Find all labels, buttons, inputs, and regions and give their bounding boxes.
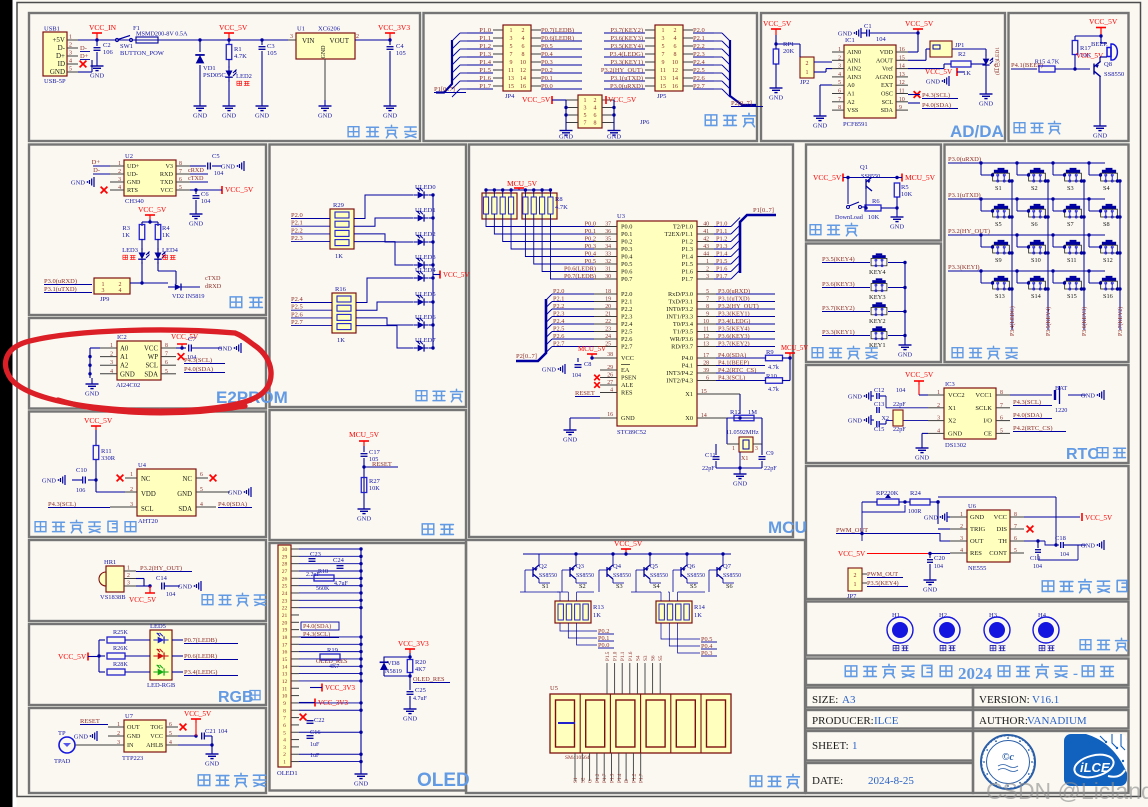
svg-text:GND: GND [979, 101, 993, 108]
svg-text:2024-8-25: 2024-8-25 [868, 775, 914, 787]
svg-text:4: 4 [594, 106, 597, 112]
svg-text:2: 2 [522, 28, 525, 34]
svg-text:+5V: +5V [52, 36, 65, 44]
svg-text:12: 12 [672, 68, 678, 74]
svg-text:VD2 IN5819: VD2 IN5819 [172, 293, 204, 300]
svg-text:1220: 1220 [1055, 407, 1067, 414]
svg-text:NC: NC [183, 476, 193, 483]
svg-text:R24: R24 [910, 490, 922, 497]
svg-text:D+: D+ [92, 159, 101, 166]
svg-text:AIN1: AIN1 [847, 57, 861, 64]
svg-text:X1: X1 [948, 405, 956, 412]
svg-text:VS1838B: VS1838B [100, 594, 126, 601]
svg-text:14: 14 [520, 76, 526, 82]
svg-text:MCU_5V: MCU_5V [349, 430, 380, 439]
svg-text:6: 6 [200, 472, 203, 478]
svg-text:16: 16 [672, 84, 678, 90]
svg-text:A1: A1 [120, 354, 128, 361]
svg-text:GND: GND [559, 134, 573, 141]
svg-text:UD-: UD- [127, 171, 138, 178]
svg-text:P1.2: P1.2 [631, 773, 637, 783]
svg-text:U2: U2 [125, 153, 133, 160]
svg-text:GND: GND [923, 587, 937, 594]
svg-text:P2.7: P2.7 [621, 344, 632, 351]
svg-text:C24: C24 [333, 557, 345, 564]
svg-text:GND: GND [924, 515, 938, 522]
svg-text:3: 3 [290, 34, 293, 40]
svg-text:1: 1 [283, 760, 286, 766]
svg-text:P2[0..7]: P2[0..7] [516, 353, 537, 360]
svg-text:100R: 100R [908, 508, 922, 515]
svg-text:MCU_5V: MCU_5V [507, 179, 538, 188]
svg-text:P3.7(KEY2): P3.7(KEY2) [1117, 307, 1124, 336]
svg-text:Q6: Q6 [687, 563, 696, 570]
svg-text:P0.6: P0.6 [621, 269, 632, 276]
svg-text:VCC_5V: VCC_5V [905, 19, 934, 28]
svg-text:UD+: UD+ [127, 163, 140, 170]
svg-text:S1: S1 [573, 777, 579, 783]
svg-text:104: 104 [572, 373, 581, 379]
svg-text:GND: GND [178, 584, 192, 591]
svg-text:10: 10 [672, 60, 678, 66]
svg-text:CE: CE [984, 430, 992, 437]
svg-text:VCC_5V: VCC_5V [1089, 17, 1118, 26]
svg-text:IN: IN [127, 742, 134, 749]
svg-text:(红色)LED1: (红色)LED1 [993, 47, 1001, 75]
svg-text:C5: C5 [212, 153, 220, 160]
svg-text:2: 2 [806, 61, 809, 67]
svg-text:V3: V3 [165, 163, 173, 170]
svg-text:104: 104 [1060, 552, 1069, 558]
svg-text:4: 4 [69, 59, 72, 65]
svg-text:R13: R13 [593, 604, 604, 611]
svg-text:S5: S5 [658, 655, 664, 661]
svg-text:U6: U6 [968, 503, 977, 510]
svg-text:VCC_3V3: VCC_3V3 [378, 23, 410, 32]
svg-text:22pF: 22pF [893, 401, 906, 408]
svg-text:1K: 1K [162, 232, 170, 239]
svg-text:R26K: R26K [113, 645, 128, 652]
svg-text:4: 4 [283, 738, 286, 744]
svg-text:C15: C15 [874, 426, 884, 433]
svg-text:P3.3(KEY1): P3.3(KEY1) [822, 329, 855, 336]
svg-text:LED5: LED5 [150, 623, 166, 630]
svg-text:LED2: LED2 [236, 73, 252, 80]
svg-text:C3: C3 [267, 43, 275, 50]
svg-text:105: 105 [267, 50, 277, 57]
svg-text:STC89C52: STC89C52 [617, 429, 646, 436]
svg-text:29: 29 [282, 554, 288, 560]
svg-text:C14: C14 [156, 575, 168, 582]
svg-text:P1.7: P1.7 [602, 773, 608, 783]
svg-text:P4.3(SCL): P4.3(SCL) [48, 501, 76, 508]
svg-text:20: 20 [282, 620, 288, 626]
svg-text:P3.4(LEDG): P3.4(LEDG) [184, 669, 217, 676]
svg-text:C25: C25 [415, 687, 426, 694]
svg-text:S3: S3 [1067, 185, 1074, 192]
svg-text:R1: R1 [234, 46, 242, 53]
svg-text:XC6206: XC6206 [318, 26, 341, 33]
svg-text:1: 1 [732, 446, 735, 452]
svg-text:3: 3 [662, 36, 665, 42]
svg-text:C8: C8 [584, 361, 591, 368]
svg-text:USB1: USB1 [44, 26, 60, 33]
svg-text:VCC_5V: VCC_5V [443, 271, 469, 279]
svg-text:5: 5 [69, 67, 72, 73]
svg-text:SS8550: SS8550 [1104, 71, 1124, 78]
svg-text:GND: GND [621, 415, 635, 422]
svg-text:2024: 2024 [958, 664, 993, 683]
svg-text:OUT: OUT [127, 724, 140, 731]
svg-text:4: 4 [674, 36, 677, 42]
svg-text:3: 3 [755, 446, 758, 452]
svg-text:VCC1: VCC1 [975, 392, 992, 399]
svg-text:LED3: LED3 [122, 247, 138, 254]
svg-text:P1.1: P1.1 [620, 651, 626, 661]
svg-text:15: 15 [660, 84, 666, 90]
svg-text:1: 1 [510, 28, 513, 34]
svg-text:RESET: RESET [80, 718, 100, 725]
svg-text:R19: R19 [327, 647, 338, 654]
svg-text:R5: R5 [901, 184, 909, 191]
svg-text:X0: X0 [685, 415, 693, 422]
svg-text:6: 6 [594, 113, 597, 119]
svg-text:C22: C22 [314, 717, 325, 724]
svg-text:P3.5(KEY4): P3.5(KEY4) [867, 580, 899, 587]
svg-text:P2.6: P2.6 [291, 311, 303, 318]
svg-text:VCC_5V: VCC_5V [225, 185, 254, 194]
svg-text:SCL: SCL [141, 506, 153, 513]
svg-text:VCC_5V: VCC_5V [925, 68, 953, 76]
svg-text:104: 104 [201, 198, 210, 205]
svg-text:10K: 10K [369, 485, 380, 492]
svg-text:GND: GND [357, 516, 371, 523]
svg-text:P3.1(uTXD): P3.1(uTXD) [948, 192, 981, 199]
svg-text:SDA: SDA [881, 107, 894, 114]
svg-text:Q2: Q2 [539, 563, 547, 570]
svg-text:P1.3: P1.3 [610, 773, 616, 783]
svg-text:1uF: 1uF [310, 742, 320, 748]
svg-text:S9: S9 [995, 257, 1002, 264]
svg-text:VOUT: VOUT [330, 37, 350, 45]
svg-text:1: 1 [130, 472, 133, 478]
svg-text:10K: 10K [868, 214, 880, 221]
svg-text:P2.1: P2.1 [621, 299, 632, 306]
svg-text:R28K: R28K [113, 661, 128, 668]
svg-text:VCC_5V: VCC_5V [138, 205, 167, 214]
svg-text:VCC_IN: VCC_IN [89, 23, 117, 32]
svg-text:3: 3 [127, 581, 130, 587]
svg-text:12: 12 [520, 68, 526, 74]
svg-text:P1.6: P1.6 [682, 269, 693, 276]
svg-text:T2EX/P1.1: T2EX/P1.1 [664, 231, 693, 238]
svg-text:C7: C7 [188, 336, 196, 343]
svg-text:DIS: DIS [997, 526, 1008, 533]
svg-text:VCC_3V3: VCC_3V3 [325, 684, 355, 692]
svg-text:9: 9 [283, 701, 286, 707]
svg-text:S16: S16 [1103, 293, 1113, 300]
svg-text:SCL: SCL [146, 363, 158, 370]
svg-text:7: 7 [283, 716, 286, 722]
svg-text:R14: R14 [694, 604, 706, 611]
svg-text:S6: S6 [1031, 221, 1038, 228]
svg-text:SDA: SDA [178, 506, 192, 513]
svg-text:GND: GND [255, 113, 269, 120]
svg-text:IC1: IC1 [845, 37, 855, 44]
svg-text:GND: GND [120, 371, 135, 378]
svg-text:VCC: VCC [144, 346, 158, 353]
svg-text:AGND: AGND [875, 74, 893, 81]
svg-text:P1.6: P1.6 [628, 651, 634, 661]
svg-text:P1.3: P1.3 [682, 246, 693, 253]
svg-text:C10: C10 [76, 467, 87, 474]
svg-text:U4: U4 [138, 462, 147, 469]
svg-text:MCU_5V: MCU_5V [905, 173, 936, 182]
svg-text:GND: GND [1081, 393, 1095, 400]
svg-text:11: 11 [282, 686, 288, 692]
svg-text:AHT20: AHT20 [138, 518, 158, 525]
svg-text:P4.0(SDA): P4.0(SDA) [184, 366, 213, 373]
svg-text:OLED: OLED [417, 770, 470, 791]
svg-text:X2: X2 [948, 418, 956, 425]
svg-text:LED4: LED4 [162, 247, 179, 254]
svg-text:T2/P1.0: T2/P1.0 [673, 224, 693, 231]
svg-text:P3.6(KEY3): P3.6(KEY3) [1081, 307, 1088, 336]
svg-text:SDA: SDA [144, 371, 158, 378]
svg-text:GND: GND [915, 455, 929, 462]
svg-text:10K: 10K [901, 191, 913, 198]
svg-text:VCC_5V: VCC_5V [522, 95, 551, 104]
svg-text:OUT: OUT [970, 538, 983, 545]
svg-text:BAT: BAT [1055, 385, 1067, 392]
svg-text:104: 104 [218, 728, 227, 735]
svg-text:14: 14 [282, 664, 288, 670]
svg-text:S6: S6 [651, 655, 657, 661]
svg-text:CSDN @Liclandli: CSDN @Liclandli [986, 778, 1148, 804]
svg-text:C2: C2 [103, 42, 111, 49]
svg-text:P2.7: P2.7 [291, 319, 303, 326]
svg-text:13: 13 [660, 76, 666, 82]
svg-text:S15: S15 [1067, 293, 1077, 300]
svg-text:RD/P3.7: RD/P3.7 [671, 344, 693, 351]
svg-text:A2: A2 [847, 99, 855, 106]
svg-text:18: 18 [282, 635, 288, 641]
svg-text:V16.1: V16.1 [1032, 694, 1059, 706]
svg-text:AIN0: AIN0 [847, 49, 861, 56]
svg-text:BEEP.: BEEP. [1091, 41, 1108, 48]
svg-text:P1.4: P1.4 [617, 773, 623, 783]
svg-text:GND: GND [221, 164, 235, 171]
svg-text:14: 14 [672, 76, 678, 82]
svg-text:13: 13 [282, 672, 288, 678]
svg-text:TxD/P3.1: TxD/P3.1 [668, 299, 693, 306]
svg-text:INT0/P3.2: INT0/P3.2 [666, 306, 693, 313]
svg-text:VCC_5V: VCC_5V [129, 596, 157, 604]
svg-text:C1: C1 [864, 23, 872, 30]
svg-text:P3.5(KEY4): P3.5(KEY4) [1045, 307, 1052, 336]
svg-text:P2[0..7]: P2[0..7] [731, 100, 752, 107]
svg-text:P2.0: P2.0 [621, 291, 632, 298]
svg-text:A1: A1 [847, 91, 855, 98]
svg-text:P4.0(SDA): P4.0(SDA) [303, 623, 331, 630]
svg-text:R2: R2 [958, 51, 966, 58]
svg-text:P2.5: P2.5 [291, 304, 303, 311]
svg-text:DS1302: DS1302 [945, 442, 966, 449]
svg-text:S4: S4 [1103, 185, 1111, 192]
svg-text:C13: C13 [874, 401, 884, 408]
svg-text:16: 16 [520, 84, 526, 90]
svg-text:P0.7(LEDB): P0.7(LEDB) [184, 637, 217, 644]
svg-text:S5: S5 [690, 583, 697, 590]
svg-text:R10: R10 [766, 373, 777, 380]
svg-text:P4.1: P4.1 [682, 363, 693, 370]
svg-text:28: 28 [282, 562, 288, 568]
svg-text:SS8550: SS8550 [539, 573, 557, 579]
svg-text:JP1: JP1 [955, 42, 964, 49]
svg-text:P0.6(LEDR): P0.6(LEDR) [184, 653, 217, 660]
svg-text:INT3/P4.2: INT3/P4.2 [666, 370, 693, 377]
svg-text:EXT: EXT [881, 82, 893, 89]
svg-text:GND: GND [50, 68, 65, 76]
svg-text:cRXD: cRXD [188, 167, 204, 174]
svg-text:1K: 1K [963, 70, 971, 77]
svg-text:GND: GND [127, 733, 141, 740]
svg-text:104: 104 [896, 387, 905, 394]
svg-text:SIZE:: SIZE: [812, 694, 838, 706]
svg-text:GND: GND [733, 481, 747, 488]
svg-text:S12: S12 [1103, 257, 1113, 264]
svg-text:6: 6 [674, 44, 677, 50]
svg-text:8: 8 [674, 52, 677, 58]
svg-text:GND: GND [890, 224, 904, 231]
svg-text:Q4: Q4 [613, 563, 622, 570]
svg-text:30: 30 [282, 547, 288, 553]
svg-text:PRODUCER:: PRODUCER: [812, 715, 874, 727]
svg-text:Q1: Q1 [860, 164, 868, 171]
svg-text:TRIG: TRIG [970, 526, 985, 533]
svg-text:AD/DA: AD/DA [950, 122, 1004, 141]
svg-text:560K: 560K [316, 586, 330, 592]
svg-text:T0/P3.4: T0/P3.4 [673, 321, 694, 328]
svg-text:P2.4: P2.4 [621, 321, 633, 328]
svg-text:VCC_5V: VCC_5V [763, 19, 792, 28]
svg-text:NE555: NE555 [968, 565, 986, 572]
svg-text:1: 1 [854, 582, 857, 588]
svg-text:C11: C11 [705, 452, 716, 459]
svg-text:1: 1 [662, 28, 665, 34]
svg-text:C20: C20 [934, 555, 945, 562]
svg-text:S13: S13 [995, 293, 1005, 300]
svg-text:SW1: SW1 [120, 43, 133, 50]
svg-text:MCU_5V: MCU_5V [781, 345, 808, 352]
svg-text:VCC_3V3: VCC_3V3 [318, 699, 348, 707]
svg-text:R4: R4 [162, 225, 170, 232]
svg-text:R17: R17 [1080, 45, 1092, 52]
svg-text:P4.3(SCL): P4.3(SCL) [184, 357, 212, 364]
svg-text:4.7k: 4.7k [768, 386, 780, 393]
svg-text:I/O: I/O [983, 418, 992, 425]
svg-text:VCC_3V3: VCC_3V3 [398, 640, 429, 648]
svg-text:GND: GND [898, 352, 912, 359]
svg-text:15: 15 [508, 84, 514, 90]
svg-text:38: 38 [607, 352, 613, 358]
svg-text:D+: D+ [80, 53, 89, 60]
svg-text:8: 8 [522, 52, 525, 58]
svg-text:22pF: 22pF [702, 465, 715, 472]
svg-text:P4.0(SDA): P4.0(SDA) [1013, 412, 1042, 419]
svg-text:GND: GND [1093, 133, 1107, 140]
svg-text:P2.2: P2.2 [291, 227, 303, 234]
svg-text:P1[0..7]: P1[0..7] [753, 207, 774, 214]
svg-text:P3.3(KEYI): P3.3(KEYI) [948, 264, 980, 271]
svg-text:GND: GND [127, 179, 141, 186]
svg-text:S1: S1 [995, 185, 1002, 192]
svg-text:S6: S6 [726, 583, 733, 590]
svg-text:12: 12 [282, 679, 288, 685]
svg-text:BUTTON_POW: BUTTON_POW [120, 50, 165, 57]
svg-text:PCF8591: PCF8591 [843, 121, 868, 128]
svg-text:1K: 1K [122, 232, 130, 239]
svg-text:P0.0: P0.0 [621, 224, 632, 231]
svg-text:P2.2: P2.2 [621, 306, 632, 313]
svg-text:RTC: RTC [1066, 446, 1099, 463]
svg-text:P3.1(uTXD): P3.1(uTXD) [44, 286, 77, 293]
svg-text:2: 2 [356, 34, 359, 40]
svg-text:AIN3: AIN3 [847, 74, 861, 81]
svg-text:3: 3 [510, 36, 513, 42]
svg-text:D-: D- [93, 167, 100, 174]
svg-text:11: 11 [508, 68, 514, 74]
svg-text:10: 10 [520, 60, 526, 66]
svg-text:TTP223: TTP223 [122, 755, 143, 762]
svg-text:8: 8 [594, 121, 597, 127]
svg-text:VCC: VCC [994, 514, 1007, 521]
svg-text:SHEET:: SHEET: [812, 740, 849, 752]
svg-text:106: 106 [76, 487, 85, 494]
svg-text:USB-5P: USB-5P [44, 78, 66, 85]
svg-text:Q7: Q7 [723, 563, 732, 570]
svg-text:dRXD: dRXD [205, 283, 222, 290]
svg-text:GND: GND [177, 491, 192, 498]
svg-text:GND: GND [218, 346, 232, 353]
svg-text:OLED_RES: OLED_RES [413, 676, 445, 683]
svg-text:SS8550: SS8550 [576, 573, 594, 579]
svg-text:104: 104 [876, 36, 887, 43]
svg-text:GND: GND [189, 221, 203, 228]
svg-text:5: 5 [584, 113, 587, 119]
svg-text:IC2: IC2 [117, 334, 127, 341]
svg-text:VCC_5V: VCC_5V [813, 173, 842, 182]
svg-text:GND: GND [383, 113, 397, 120]
svg-text:INT2/P4.3: INT2/P4.3 [666, 378, 693, 385]
svg-text:P0.2: P0.2 [621, 239, 632, 246]
svg-text:1: 1 [806, 70, 809, 76]
svg-text:A2: A2 [120, 363, 129, 370]
svg-text:P0.7: P0.7 [621, 276, 632, 283]
svg-text:4.7k: 4.7k [768, 364, 780, 371]
svg-text:RES: RES [621, 390, 633, 397]
svg-text:Q3: Q3 [576, 563, 584, 570]
svg-text:VCC_5V: VCC_5V [1085, 514, 1113, 522]
svg-text:VSS: VSS [847, 107, 859, 114]
svg-text:3: 3 [584, 106, 587, 112]
svg-text:P0.3: P0.3 [621, 246, 632, 253]
svg-text:GND: GND [926, 79, 940, 86]
svg-text:TP: TP [58, 730, 66, 737]
svg-text:C17: C17 [369, 449, 381, 456]
svg-text:GND: GND [848, 418, 862, 425]
svg-text:P2.4: P2.4 [291, 296, 303, 303]
